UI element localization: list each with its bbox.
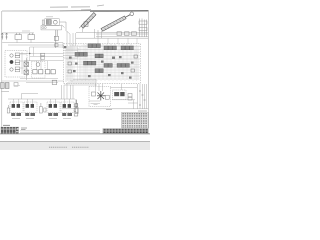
power unit label bbox=[46, 16, 53, 18]
drain valve left bbox=[7, 105, 9, 113]
reservoir fittings bbox=[42, 20, 66, 31]
spool bank 7 bbox=[104, 64, 112, 68]
coupler valve pair 1 bbox=[15, 53, 20, 58]
swing motor cluster bbox=[113, 90, 127, 100]
page edge line below sheet bbox=[0, 142, 150, 150]
inline check valves bbox=[117, 32, 136, 36]
pilot group wires bbox=[20, 61, 63, 83]
sheet bottom border bbox=[0, 133, 150, 135]
drain valve right bbox=[75, 100, 78, 114]
pilot relief valve bbox=[52, 80, 57, 84]
suction filter bbox=[74, 99, 78, 116]
pilot pump circle bbox=[53, 20, 57, 24]
travel motor group 1 bbox=[10, 99, 23, 119]
coupler valve pair 2 bbox=[15, 60, 20, 65]
arm cylinder (diagonal) bbox=[101, 15, 130, 32]
revision strip center bbox=[20, 131, 100, 133]
cylinder port valve bbox=[84, 22, 88, 27]
spool bank 4 bbox=[75, 52, 87, 56]
travel motor group 4 bbox=[61, 99, 74, 119]
pilot junction connectors bbox=[41, 53, 45, 59]
spool bank 3 bbox=[121, 46, 133, 50]
return filter B bbox=[28, 33, 35, 40]
return bus lines bbox=[2, 39, 63, 48]
spool bank 6 bbox=[84, 61, 96, 65]
spool bank 9 bbox=[95, 69, 103, 73]
wire drop from power unit bbox=[67, 31, 76, 46]
gauge coupler 2 (dark) bbox=[10, 60, 13, 63]
pilot valve c bbox=[46, 70, 50, 74]
relief valve cluster bbox=[68, 55, 137, 73]
left small box bbox=[14, 83, 18, 87]
pilot line valves stack bbox=[54, 30, 58, 48]
bundle tick marks bbox=[139, 91, 146, 105]
junction node bbox=[29, 53, 30, 54]
main control valve enclosure bbox=[64, 44, 141, 84]
pilot valve d bbox=[51, 70, 55, 74]
pilot manifold enclosure bbox=[5, 51, 27, 78]
spool bank 8 bbox=[117, 64, 129, 68]
cylinder labels bbox=[81, 5, 104, 10]
spool bank 1 bbox=[88, 44, 100, 48]
title block strip right bbox=[103, 128, 149, 133]
travel group label bbox=[14, 85, 20, 87]
valve block internal rails bbox=[66, 44, 140, 82]
spool bank 2 bbox=[104, 46, 116, 50]
left port label bbox=[1, 91, 9, 93]
bottom drain line bbox=[62, 108, 148, 110]
main pump enclosure bbox=[89, 87, 111, 107]
main pump unit bbox=[97, 91, 105, 101]
travel motor group 3 bbox=[47, 99, 60, 119]
valve block feed stubs bbox=[64, 48, 79, 58]
travel feed drop bbox=[8, 85, 75, 99]
filter label bbox=[22, 30, 30, 32]
pump label bbox=[106, 109, 112, 111]
spool bank 5 bbox=[95, 54, 103, 58]
note tag right of notes block bbox=[21, 128, 27, 130]
swing feed wires bbox=[110, 84, 137, 100]
filter header line bbox=[2, 32, 34, 34]
pump suction wires bbox=[89, 84, 103, 105]
sheet left border bbox=[1, 11, 3, 134]
pump pilot box bbox=[105, 95, 109, 99]
gauge coupler 1 bbox=[10, 54, 13, 57]
valve block dark nodes bbox=[64, 46, 134, 79]
hose bus upper right bbox=[76, 29, 148, 38]
solenoid valve S2 bbox=[24, 70, 29, 75]
solenoid valve S1 bbox=[24, 62, 29, 67]
pilot valve a bbox=[33, 70, 37, 74]
left port blocks bbox=[1, 83, 9, 89]
right return bundle bbox=[128, 84, 147, 109]
parts table bbox=[122, 113, 149, 129]
pilot pump circle small bbox=[36, 63, 40, 67]
valve block drain nest bbox=[64, 79, 96, 99]
pilot valve group enclosure bbox=[32, 62, 46, 79]
sheet top border right (darker double) bbox=[60, 10, 148, 11]
power unit enclosure bbox=[41, 19, 62, 30]
travel motor group 2 bbox=[24, 99, 37, 119]
right small valve bbox=[128, 94, 132, 101]
solenoid feed wire bbox=[25, 58, 27, 80]
return filter A bbox=[15, 33, 22, 40]
bus-to-valve drops bbox=[70, 38, 140, 46]
notes block bottom-left bbox=[1, 125, 20, 133]
valve block fine mesh bbox=[66, 45, 140, 81]
return line long bbox=[2, 80, 64, 82]
caption text below page bbox=[49, 146, 89, 148]
arm cylinder rod eye bbox=[130, 12, 134, 16]
coupler valve pair 3 bbox=[15, 67, 20, 72]
pilot valve b bbox=[39, 70, 43, 74]
drain valve mid-left bbox=[40, 103, 47, 113]
boom cylinder (diagonal) bbox=[79, 13, 96, 33]
sheet right border bbox=[147, 10, 149, 134]
pilot pump motor (hatched) bbox=[46, 20, 51, 25]
pump regulator box bbox=[92, 92, 96, 96]
manifold internal wires bbox=[20, 52, 27, 74]
gauge coupler 3 bbox=[10, 68, 13, 71]
right valve column bbox=[139, 19, 147, 37]
sheet title text bbox=[50, 6, 90, 8]
table caption bbox=[138, 110, 147, 112]
breather symbols left bbox=[1, 33, 8, 40]
pilot junction lines bbox=[20, 47, 64, 61]
sheet top border bbox=[2, 10, 60, 12]
